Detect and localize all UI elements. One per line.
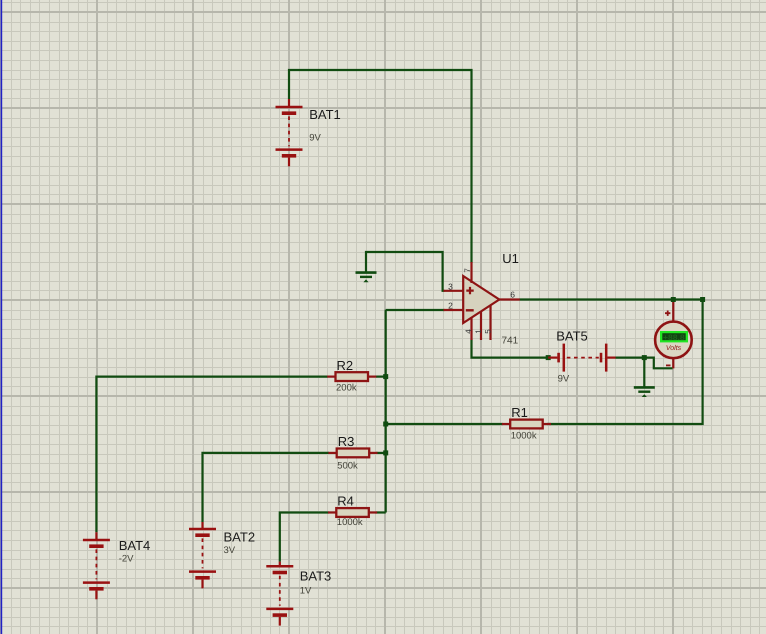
ground near BAT5/voltmeter bbox=[634, 387, 655, 397]
battery BAT4 (-2V) bbox=[83, 532, 110, 599]
svg-text:7: 7 bbox=[463, 268, 472, 273]
voltmeter bottom pin (-) bbox=[672, 358, 674, 368]
U1 pin 6 (output) bbox=[499, 298, 520, 300]
voltmeter - polarity mark bbox=[666, 364, 671, 366]
svg-text:9V: 9V bbox=[558, 373, 570, 384]
U1 pin 1 (offset null) bbox=[480, 311, 482, 340]
svg-text:1000k: 1000k bbox=[337, 517, 363, 528]
wire R1 left to bus bbox=[386, 423, 503, 425]
svg-text:R4: R4 bbox=[337, 493, 354, 508]
voltmeter + polarity mark bbox=[665, 311, 670, 316]
resistor R2 (200k) bbox=[327, 372, 376, 381]
svg-text:3: 3 bbox=[448, 281, 453, 291]
svg-text:4: 4 bbox=[464, 329, 473, 334]
resistor R1 (1000k) bbox=[502, 420, 551, 429]
svg-text:R1: R1 bbox=[511, 405, 528, 420]
junction node R1/bus bbox=[383, 422, 388, 427]
voltmeter LCD display +88.8 bbox=[660, 331, 688, 342]
U1 pin 5 (offset null) bbox=[489, 305, 491, 340]
junction node R2/bus bbox=[383, 374, 388, 379]
junction node BAT5/ground bbox=[642, 355, 647, 360]
svg-text:BAT4: BAT4 bbox=[119, 538, 151, 553]
wire BAT4 to R2 left bbox=[96, 377, 327, 533]
svg-text:6: 6 bbox=[510, 289, 515, 299]
svg-text:741: 741 bbox=[502, 335, 519, 346]
battery BAT3 (1V) bbox=[266, 562, 293, 626]
battery BAT5 (9V) horizontal bbox=[548, 344, 615, 372]
wire U1 pin 2 to inverting node bbox=[386, 309, 445, 311]
junction node output/meter+ bbox=[671, 297, 676, 302]
wire BAT1 positive to U1 pin 7 bbox=[289, 70, 472, 263]
svg-text:BAT3: BAT3 bbox=[300, 569, 332, 584]
wire BAT5 positive to ground node bbox=[615, 358, 644, 387]
U1 pin 4 (V-) bbox=[470, 318, 472, 340]
wire BAT2 to R3 left bbox=[203, 453, 330, 522]
resistor R4 (1000k) bbox=[328, 508, 377, 517]
svg-text:1000k: 1000k bbox=[511, 430, 537, 441]
wire U1 pin 4 to BAT5 negative bbox=[472, 340, 549, 358]
svg-text:200k: 200k bbox=[336, 383, 357, 394]
voltmeter probe top pin (+) bbox=[672, 302, 674, 322]
svg-text:Volts: Volts bbox=[666, 344, 682, 352]
U1 pin 2 (inverting input) bbox=[444, 309, 464, 311]
battery BAT2 (3V) bbox=[189, 522, 216, 588]
wire R4 right to bus bbox=[375, 511, 385, 513]
wire R2 right to bus bbox=[376, 376, 386, 378]
U1 non-inverting + mark bbox=[466, 287, 473, 294]
svg-text:BAT2: BAT2 bbox=[224, 530, 256, 545]
wire R3 right to bus bbox=[376, 452, 386, 454]
wire inverting summing bus bbox=[385, 310, 387, 513]
svg-text:1: 1 bbox=[474, 329, 483, 334]
U1 pin 7 (V+) bbox=[470, 262, 472, 283]
svg-text:R3: R3 bbox=[338, 434, 355, 449]
voltmeter body bbox=[655, 322, 692, 359]
resistor R3 (500k) bbox=[328, 449, 377, 458]
svg-text:BAT5: BAT5 bbox=[556, 329, 588, 344]
svg-text:5: 5 bbox=[483, 329, 492, 334]
svg-text:9V: 9V bbox=[309, 133, 321, 144]
wire BAT3 to R4 left bbox=[280, 513, 329, 562]
U1 pin 3 (non-inverting input) bbox=[444, 290, 464, 292]
svg-text:BAT1: BAT1 bbox=[309, 107, 341, 122]
svg-text:R2: R2 bbox=[337, 358, 354, 373]
wire ground to U1 pin 3 (non-inverting) bbox=[366, 252, 445, 291]
svg-text:500k: 500k bbox=[337, 460, 358, 471]
wire ground node to voltmeter negative bbox=[644, 358, 672, 369]
battery BAT1 (9V) bbox=[276, 99, 303, 166]
svg-text:+88.8: +88.8 bbox=[663, 333, 685, 342]
svg-text:-2V: -2V bbox=[119, 554, 134, 565]
svg-text:U1: U1 bbox=[502, 251, 519, 266]
junction node R3/bus bbox=[383, 450, 388, 455]
op-amp U1 (741) bbox=[463, 276, 499, 323]
junction node output/feedback corner bbox=[700, 297, 705, 302]
svg-text:3V: 3V bbox=[224, 545, 236, 556]
svg-text:1V: 1V bbox=[300, 585, 312, 596]
svg-text:2: 2 bbox=[448, 301, 453, 311]
junction node pin4/BAT5 bbox=[546, 355, 551, 360]
ground near U1 pin 3 bbox=[356, 273, 377, 283]
wire U1 output net to feedback and meter bbox=[520, 300, 703, 425]
U1 inverting - mark bbox=[466, 309, 474, 311]
